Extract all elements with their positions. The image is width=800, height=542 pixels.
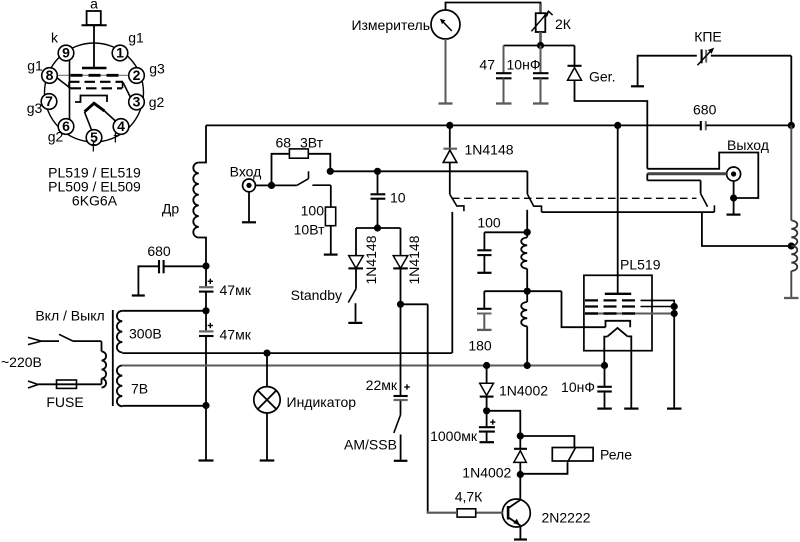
svg-text:680: 680 (147, 243, 171, 259)
svg-text:100: 100 (477, 215, 501, 231)
svg-text:f: f (114, 130, 118, 146)
svg-text:Вкл / Выкл: Вкл / Выкл (35, 308, 104, 324)
svg-text:3Вт: 3Вт (300, 135, 324, 151)
svg-text:Измеритель: Измеритель (351, 17, 430, 33)
svg-text:Реле: Реле (600, 447, 632, 463)
svg-text:7В: 7В (131, 381, 148, 397)
svg-text:2К: 2К (555, 16, 572, 32)
svg-text:g3: g3 (149, 61, 165, 77)
svg-text:Вход: Вход (230, 164, 262, 180)
svg-text:AM/SSB: AM/SSB (344, 437, 397, 453)
svg-text:6: 6 (62, 118, 70, 134)
svg-text:Ger.: Ger. (589, 69, 615, 85)
svg-text:a: a (90, 0, 98, 12)
svg-text:f: f (92, 139, 96, 155)
svg-text:10нФ: 10нФ (507, 57, 541, 73)
svg-text:КПЕ: КПЕ (694, 29, 722, 45)
svg-text:47мк: 47мк (220, 327, 252, 343)
svg-text:47: 47 (479, 57, 495, 73)
svg-text:7: 7 (45, 93, 53, 109)
svg-text:300В: 300В (129, 326, 162, 342)
svg-text:10: 10 (390, 190, 406, 206)
svg-text:1N4148: 1N4148 (363, 235, 379, 284)
svg-text:Standby: Standby (291, 287, 342, 303)
svg-text:k: k (51, 30, 59, 46)
svg-text:3: 3 (133, 94, 141, 110)
svg-text:180: 180 (468, 338, 492, 354)
svg-text:68: 68 (276, 135, 292, 151)
svg-text:1N4002: 1N4002 (462, 465, 511, 481)
svg-text:g1: g1 (128, 30, 144, 46)
svg-text:Индикатор: Индикатор (287, 394, 357, 410)
svg-text:1000мк: 1000мк (430, 428, 478, 444)
svg-text:8: 8 (46, 67, 54, 83)
svg-text:6KG6A: 6KG6A (72, 193, 118, 209)
svg-text:g1: g1 (27, 58, 43, 74)
svg-text:10нФ: 10нФ (561, 379, 595, 395)
svg-text:FUSE: FUSE (46, 394, 83, 410)
svg-text:4,7К: 4,7К (455, 489, 483, 505)
svg-text:1N4148: 1N4148 (465, 142, 514, 158)
svg-text:1: 1 (116, 45, 124, 61)
svg-text:100: 100 (301, 202, 325, 218)
svg-text:4: 4 (117, 118, 125, 134)
svg-text:g2: g2 (48, 129, 64, 145)
svg-text:g3: g3 (27, 100, 43, 116)
svg-text:Выход: Выход (727, 137, 769, 153)
svg-text:22мк: 22мк (366, 377, 398, 393)
svg-text:2: 2 (133, 67, 141, 83)
svg-text:1N4148: 1N4148 (406, 235, 422, 284)
svg-text:g2: g2 (149, 94, 165, 110)
svg-text:PL519: PL519 (620, 257, 661, 273)
svg-text:9: 9 (62, 45, 70, 61)
svg-text:10Вт: 10Вт (294, 222, 325, 238)
svg-text:680: 680 (693, 102, 717, 118)
svg-text:47мк: 47мк (220, 282, 252, 298)
svg-text:2N2222: 2N2222 (542, 509, 591, 525)
svg-text:~220В: ~220В (1, 354, 42, 370)
svg-text:Др: Др (162, 201, 179, 217)
svg-text:1N4002: 1N4002 (499, 383, 548, 399)
